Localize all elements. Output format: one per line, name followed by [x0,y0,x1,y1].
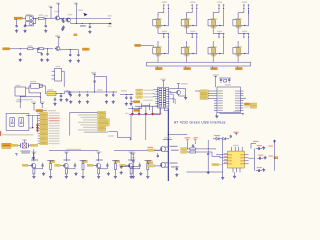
net flag DRV2 [55,164,60,166]
IC1 right pin 2 [235,93,243,94]
resistor RM1 [190,148,196,150]
supply +9V [56,3,60,6]
switch S1a [10,118,15,127]
ground [15,29,18,32]
wire [95,76,107,92]
IC1 right pin 7 [235,105,243,106]
resistor RM2 [190,151,196,153]
capacitor C4 [62,20,64,23]
IC1 right pin 1 [235,90,243,91]
switch box S1 [6,114,29,131]
ground [112,100,115,103]
wire [62,71,65,87]
resistor R1a [33,169,35,174]
wire [44,18,51,19]
connector J1 jack B [26,22,34,26]
wire [112,161,119,164]
net flag B2 [98,114,106,116]
wire [187,148,190,150]
wire [22,17,25,19]
wire [65,167,67,170]
wire [236,66,238,68]
wire [98,173,100,176]
net flag G10 [40,135,60,137]
junction [40,92,41,93]
net flag IC1L1 [200,90,208,92]
wire [70,50,78,54]
wire [38,130,41,132]
ground [81,175,84,178]
wire [68,167,75,169]
ground [221,176,224,179]
IC1 right pin 8 [235,107,243,108]
net flag G4 [40,120,60,122]
pin header P4b [248,5,250,10]
ground [61,27,64,30]
label D2 [30,81,36,82]
supply VCC [91,72,96,77]
net flag DRVO2 [82,160,88,162]
ground [139,172,142,175]
wire [10,48,28,49]
supply VCC [213,74,219,78]
wire [163,83,165,87]
wire [216,113,218,115]
bus label text 4 [83,119,97,120]
ground [42,172,45,175]
wire [80,161,87,164]
wire [47,161,54,164]
ground [53,102,56,105]
supply VCC [161,79,166,83]
ground [77,59,80,62]
wire [38,135,41,137]
capacitor CD2 [74,164,76,167]
wire [157,41,159,43]
wire [212,41,214,43]
capacitor C17 [86,94,88,97]
wire [222,140,224,151]
capacitor C8 [41,53,43,56]
header pin squares row 3 [155,93,169,95]
wire [251,143,256,148]
label [268,145,273,146]
ground [215,114,218,117]
resistor R1b [50,164,52,170]
wire [130,167,132,170]
transistor Q3 [55,46,60,50]
wire [179,95,186,97]
ground [40,58,43,61]
wire [36,167,43,169]
wire [47,49,49,53]
wire [215,78,217,87]
valve V8 (bottom) [233,42,247,57]
IC3 right pin 2 [240,157,248,158]
wire right pins [169,94,173,103]
transistor T1 [31,163,36,168]
ground [86,100,89,103]
label IC2 [48,89,54,90]
IC3 top pin 1 [231,147,233,151]
wire vert [207,140,209,153]
wire [24,24,26,26]
wire [234,172,236,174]
capacitor C12 [60,94,62,97]
wire [135,105,158,107]
pin header P8b [248,33,250,38]
pin header P4a [242,2,247,10]
wire [17,144,20,146]
IC1 right pin 5 [235,100,243,101]
pin header P5a [162,31,167,39]
label M1b [171,150,179,151]
wire [208,92,214,94]
pin header P3a [217,2,222,10]
svg-text:AT 4232 Green USB Interface: AT 4232 Green USB Interface [174,121,226,125]
label Q3 [55,35,60,36]
wire [157,58,159,63]
net flag ISP1 [12,144,17,146]
net flag IC1L2 [200,92,208,94]
bus label text 5 [78,122,97,123]
ground [97,175,100,178]
supply VMOT4 [129,151,134,155]
wire vertical collector [69,112,71,135]
wire [38,117,41,119]
wire [76,19,77,25]
wire [44,48,54,49]
bus label text 3 [81,117,98,118]
wire [247,10,248,26]
label X2 [56,66,61,67]
transistor Q1 [54,16,59,20]
capacitor CD1 [41,164,43,167]
IC3 left pin 4 [223,162,232,164]
ground [65,98,68,101]
ground [146,175,149,178]
wire [29,92,40,94]
bus label text 2 [78,114,97,115]
wire [208,95,214,97]
wire drop 2 [145,115,147,141]
regulator IC2 78L05 [47,91,57,95]
wire rail [66,91,117,92]
wire [125,164,128,166]
wire [185,41,187,43]
wire [169,91,171,93]
pin header P2a [190,2,195,10]
net flag IC1L4 [200,97,208,99]
wire [45,18,47,24]
label IC1 [225,84,231,85]
wire [212,58,214,63]
supply VCC red2 [193,137,198,142]
wire [58,43,60,46]
ground [107,172,110,175]
wire [152,106,154,112]
transistor T2 [64,163,69,168]
net flag G3 [40,117,60,119]
capacitor C23 [27,143,29,147]
wire [42,163,44,169]
supply VCC red [185,137,190,142]
label T2 [63,159,70,160]
wire [121,165,139,167]
ground [74,172,77,175]
net flag B5 [98,121,110,123]
wire [138,106,140,112]
wire [222,10,223,26]
net flag G7 [36,126,60,130]
header JP1 body [158,87,169,108]
resistor R1 [38,17,44,19]
diode D5 (red) [145,112,148,116]
wire [71,22,77,24]
wire right pins2 [169,99,175,104]
wire [128,103,141,108]
IC3 body USB [228,151,245,168]
IC1 left pin 5 [214,100,223,101]
label red-row [125,113,129,114]
capacitor CM2 [176,168,178,171]
capacitor C21 [130,96,132,99]
wire right vert [274,140,276,171]
supply VMOT3 [96,151,101,155]
IC3 top pin 3 [238,147,240,151]
wire [28,144,30,146]
capacitor CM3b [120,166,122,169]
wire [74,163,76,169]
wire [114,170,116,175]
ground [129,102,132,105]
bus label text 8 [78,129,97,130]
IC3 top pin 4 [241,147,243,151]
pin header P5b [168,33,170,38]
wire long output [76,15,111,27]
wire [238,30,248,34]
wire [51,17,54,19]
net flag DRVO4 [146,160,152,162]
oscillator-box D2 [31,84,43,89]
capacitor C18 [105,94,107,97]
ground [125,102,128,105]
label H4 [143,100,153,101]
supply +9V [74,3,78,6]
connector jack DC [52,68,62,81]
capacitor CD4 [139,164,141,167]
label M1a [170,146,178,147]
label IC3 [233,145,238,146]
wire [145,106,147,112]
supply VCC [233,132,238,136]
pin header P1a [162,2,167,10]
IC1 left pin 7 [214,105,223,106]
wire [154,165,159,167]
bus row 1 wire [70,111,98,113]
wire rail2 [120,94,133,95]
capacitor C20 [125,96,127,99]
power mark [74,34,77,36]
ground [184,96,187,99]
net flag DRVO1 [49,160,55,162]
wire [131,106,133,112]
wire [157,153,159,154]
wire long left [222,151,224,176]
net flag B6 [98,124,110,126]
net flag U2 [181,151,187,153]
wire [187,142,195,149]
label row0 [48,110,56,111]
capacitor C2 [24,25,26,28]
diode DP1 [214,135,220,140]
wire [153,96,155,99]
wire [65,155,67,161]
IC3 top pin 2 [234,147,236,151]
IC1 right pin 6 [235,103,243,104]
ground [233,175,236,178]
IC1 left pin 2 [214,93,223,94]
header pin squares row 4 [155,96,169,98]
capacitor C14 [54,98,56,101]
wire [33,18,38,19]
wire [89,23,90,25]
transistor Q2 [65,18,70,22]
supply VMOT2 [64,151,69,155]
battery B1 [15,87,26,96]
net flag H2 [136,93,153,95]
net flag VOUT3 [211,67,218,69]
valve V6 (bottom) [181,42,195,57]
wire [28,164,31,166]
net flag E2 [134,109,140,111]
wire [237,41,239,43]
wire [208,90,214,92]
wire [70,49,71,53]
capacitor C3 [45,24,47,27]
ground [78,100,81,103]
capacitor CM1 [157,154,159,157]
wire [33,18,35,24]
wire [38,122,41,124]
wire [248,10,250,14]
net flag IC1R [244,103,256,105]
wire [131,99,134,102]
IC3 left pin 2 [223,156,232,158]
capacitor C15 [70,94,72,97]
wire [153,93,155,96]
wire [38,138,41,140]
label red hdr [154,113,162,114]
wire [26,86,31,93]
wire [147,170,149,175]
wire [213,30,223,34]
capacitor CM3 [132,160,134,163]
header pin squares row 5 [155,98,169,100]
wire [129,114,160,116]
diode D6 (red) [151,112,154,116]
wire [213,138,229,140]
net flag H3 [136,96,153,98]
net flag row0 (orange) [36,109,43,111]
IC1 left pin 1 [214,90,223,91]
wire bus [141,45,154,47]
wire [168,166,177,167]
MOSFET M2 [159,162,168,167]
label Q1 [55,11,60,12]
wire [60,18,62,20]
connector J1 jack A [26,16,34,20]
pin header P6b [196,33,198,38]
label xtal [20,151,30,154]
label SV1 [2,148,12,149]
label top right [253,141,259,142]
ground [19,58,22,61]
wire [34,105,42,110]
wire [222,38,223,54]
capacitor C22 [20,143,22,147]
IC1 left pin 3 [214,95,223,96]
resistor R3b [114,164,116,170]
wire [43,110,47,112]
label C3 [44,15,48,16]
supply VCC [177,83,188,86]
wire [50,9,52,18]
wire [211,66,213,68]
capacitor CM4 [192,144,194,147]
capacitor C7 [19,53,21,56]
wire [50,170,52,175]
bus line vertical [167,108,169,181]
wire [38,120,41,122]
wire [158,10,164,15]
IC1 left pin 9 [214,110,223,111]
IC3 left pin 1 [223,153,232,155]
switch S1b [19,118,24,127]
ground [105,100,108,103]
wire [144,161,151,164]
wire [38,125,41,127]
IC3 bottom pin 1 [232,168,234,172]
pin header P2b [196,5,198,10]
rail wire [49,149,99,151]
resistor R3a [98,169,100,174]
ground [132,175,135,178]
wire [195,38,196,54]
valve V4 (top) [233,14,247,29]
net flag B4 [98,119,110,121]
wire [238,10,244,15]
wire drop 1 [130,115,132,141]
wire [100,167,107,169]
caption switches [2,134,33,135]
net flag VOUT2 [184,67,191,69]
wire into row1 [195,90,200,92]
wire hdr bottom [160,108,168,115]
wire [213,10,219,15]
wire [58,39,60,43]
capacitor CM5 [207,153,209,156]
rc cell 2 [257,155,267,160]
capacitor CP9 [273,140,275,143]
wire [64,91,66,94]
ground [65,175,68,178]
capacitor C10 [69,53,71,56]
net flag IC1R2 [244,106,256,108]
wire [185,66,187,68]
net flag E1 [134,101,140,103]
net flag right edge [274,157,278,159]
